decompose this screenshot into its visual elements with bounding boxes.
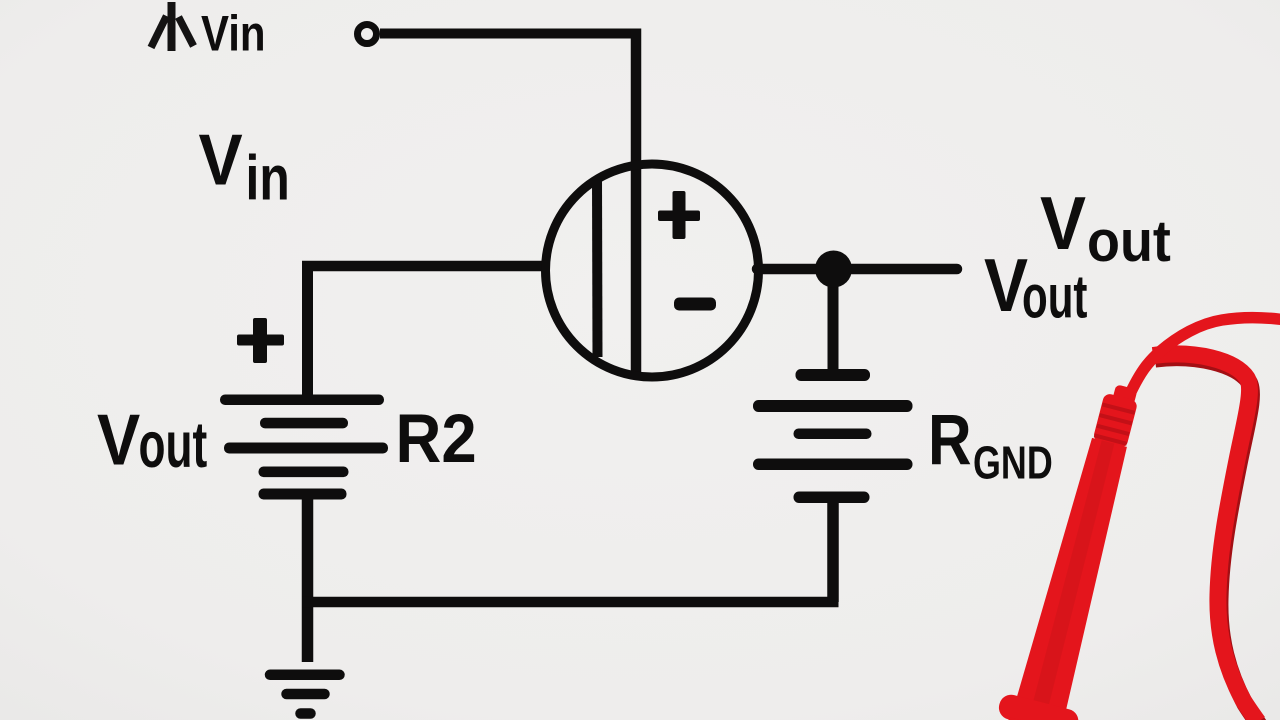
svg-text:V: V [1040, 182, 1086, 265]
svg-text:R: R [928, 399, 972, 479]
ground symbol [270, 675, 340, 714]
svg-text:Vin: Vin [201, 5, 266, 61]
probe shaft inner stripe [1032, 440, 1116, 708]
label Vout (upper right) [1040, 182, 1086, 265]
wire: right stub below battery RGND to bottom horizontal [827, 500, 839, 602]
wire: vertical drop from top wire into source circle [631, 29, 642, 375]
wire: left vertical from left horizontal down to battery R2 [302, 261, 313, 398]
svg-text:GND: GND [973, 437, 1053, 488]
battery RGND plate 5 (bottom short) [794, 492, 870, 504]
wire: left horizontal from Vout battery top to source circle [302, 261, 548, 272]
probe cable inner descending loop [1153, 354, 1258, 720]
svg-text:R2: R2 [396, 401, 477, 478]
battery R2 plate 1 (top long) [220, 395, 384, 406]
svg-text:in: in [246, 144, 290, 214]
plus sign inside circle [658, 211, 700, 222]
battery RGND plate 2 (long) [753, 400, 913, 412]
op-amp / source circle U1 [546, 164, 759, 377]
svg-text:V: V [97, 399, 141, 480]
label Vout (right of wire) [984, 243, 1028, 327]
wire: bottom horizontal return [302, 597, 839, 608]
wire: vertical from Vout node down to battery RGND [828, 269, 839, 372]
probe cable upper strand to right edge [1128, 318, 1280, 398]
battery R2 plate 5 (short) [259, 489, 347, 500]
svg-text:V: V [199, 119, 243, 200]
node Vout junction dot [815, 251, 852, 288]
probe cable inner descending loop (shadow edge) [1155, 358, 1260, 720]
wire: top horizontal from input terminal to vertical drop [380, 29, 636, 39]
probe tip [1112, 384, 1137, 405]
minus sign inside circle [674, 298, 716, 311]
node: open input terminal [358, 25, 377, 44]
wire: bottom stub below battery R2 down to ground [302, 496, 314, 662]
label RGND [928, 399, 972, 479]
battery RGND plate 3 (short) [794, 429, 872, 440]
svg-text:out: out [139, 409, 208, 482]
probe shaft [1016, 436, 1134, 713]
battery RGND plate 1 (top short) [796, 369, 871, 381]
battery R2 plate 3 (long) [224, 443, 388, 454]
waveform glyph /|\ at top left [151, 2, 194, 51]
probe strain relief (ribbed) [1093, 393, 1139, 449]
svg-text:out: out [1087, 208, 1171, 273]
svg-text:out: out [1022, 264, 1087, 332]
probe collar flange [996, 692, 1081, 720]
probe body [987, 376, 1163, 720]
capacitor-like chord line inside circle [592, 178, 603, 358]
battery R2 plate 2 (short) [260, 418, 348, 429]
battery R2 plate 4 (short) [259, 467, 349, 478]
label Vin (small, top) [201, 5, 266, 61]
probe lower barrel [996, 716, 1068, 720]
plus sign above battery R2 [237, 335, 284, 346]
label Vin (large) [199, 119, 243, 200]
battery RGND plate 4 (long) [753, 459, 913, 471]
label R2 [396, 401, 477, 478]
oscilloscope probe (red) [987, 318, 1280, 720]
label Vout (left) [97, 399, 141, 480]
wire: right horizontal from circle to Vout node [757, 264, 957, 275]
